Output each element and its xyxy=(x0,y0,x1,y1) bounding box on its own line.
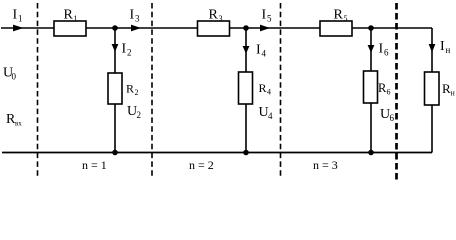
current arrow Iн (load) xyxy=(429,39,451,55)
svg-text:4: 4 xyxy=(268,111,273,121)
wire: shunt branch node C (x=371) xyxy=(370,28,372,152)
label U6 xyxy=(380,107,395,123)
svg-text:6: 6 xyxy=(390,113,395,123)
wire: bottom return bus xyxy=(2,152,432,154)
resistor R6 (shunt) xyxy=(364,71,391,103)
svg-text:2: 2 xyxy=(135,88,139,97)
current arrow I4 xyxy=(243,43,267,59)
resistor R2 (shunt) xyxy=(108,73,139,104)
svg-text:4: 4 xyxy=(262,49,267,59)
node 1 junction dot (top) xyxy=(112,25,118,31)
svg-text:3: 3 xyxy=(135,14,140,24)
node 3' junction dot (bottom) xyxy=(368,150,374,156)
section boundary bold dashed line n=3/load xyxy=(395,3,398,180)
svg-text:I: I xyxy=(440,39,445,54)
svg-text:R: R xyxy=(64,8,74,23)
svg-text:н: н xyxy=(446,45,451,55)
svg-text:I: I xyxy=(256,43,261,58)
label U4 xyxy=(259,105,274,121)
svg-text:2: 2 xyxy=(127,48,132,58)
node 2 junction dot (top) xyxy=(243,25,249,31)
svg-text:R: R xyxy=(209,8,219,23)
node 1' junction dot (bottom) xyxy=(112,150,118,156)
svg-text:5: 5 xyxy=(267,14,272,24)
svg-text:R: R xyxy=(259,81,267,95)
node 3 junction dot (top) xyxy=(368,25,374,31)
svg-text:1: 1 xyxy=(74,14,78,23)
wire: shunt branch node A (x=115) xyxy=(114,28,116,152)
current arrow I1 xyxy=(13,8,24,32)
svg-text:I: I xyxy=(130,8,135,23)
svg-text:I: I xyxy=(13,8,18,23)
section boundary dashed line n=2/n=3 xyxy=(280,3,282,179)
svg-text:6: 6 xyxy=(384,48,389,58)
svg-text:3: 3 xyxy=(219,14,223,23)
label U0 (source voltage) xyxy=(3,66,17,82)
svg-text:R: R xyxy=(334,8,344,23)
svg-text:I: I xyxy=(262,8,267,23)
svg-text:I: I xyxy=(122,42,127,57)
svg-text:I: I xyxy=(379,42,384,57)
label U2 xyxy=(127,104,141,120)
svg-text:6: 6 xyxy=(387,88,391,97)
resistor R4 (shunt) xyxy=(239,72,272,104)
svg-text:вх: вх xyxy=(15,120,22,128)
current arrow I6 xyxy=(368,42,389,58)
section boundary dashed line n=1/n=2 xyxy=(151,3,153,179)
resistor R3 xyxy=(198,8,230,37)
section boundary dashed line n=0/n=1 xyxy=(37,3,39,179)
svg-text:n = 1: n = 1 xyxy=(82,158,107,172)
current arrow I2 xyxy=(112,42,132,58)
svg-text:R: R xyxy=(126,82,134,96)
current arrow I3 xyxy=(130,8,142,32)
svg-text:2: 2 xyxy=(137,110,142,120)
svg-text:4: 4 xyxy=(267,88,271,97)
resistor R5 xyxy=(320,8,352,37)
svg-text:n = 3: n = 3 xyxy=(313,158,338,172)
node 2' junction dot (bottom) xyxy=(243,150,249,156)
label Rвх (input resistance) xyxy=(6,112,22,128)
current arrow I5 xyxy=(260,8,272,32)
wire: load branch right edge xyxy=(431,28,433,153)
svg-text:1: 1 xyxy=(18,14,23,24)
svg-text:n = 2: n = 2 xyxy=(189,158,214,172)
wire: shunt branch node B (x=246) xyxy=(245,28,247,152)
svg-text:5: 5 xyxy=(344,14,348,23)
svg-text:0: 0 xyxy=(12,72,17,82)
svg-text:н: н xyxy=(451,89,456,98)
resistor Rн (load) xyxy=(425,72,456,105)
wire: top bus from input to load corner xyxy=(1,27,432,29)
resistor R1 xyxy=(54,8,86,37)
